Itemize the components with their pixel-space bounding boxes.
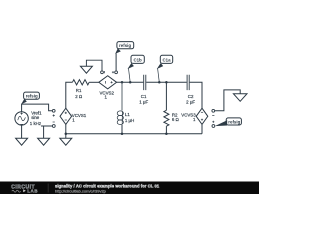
divider	[47, 184, 50, 193]
wire L1 drop	[121, 82, 123, 110]
svg-text:2 μF: 2 μF	[186, 99, 195, 104]
bottom rail wire	[66, 133, 202, 135]
wire C1a flag line	[158, 68, 160, 82]
VCVS2 plus mark	[111, 81, 113, 83]
wire VCVS2 + control up	[115, 53, 117, 71]
svg-text:refsig: refsig	[26, 94, 38, 99]
svg-text:C2: C2	[188, 94, 194, 99]
VCVS3 + control terminal	[212, 125, 215, 128]
capacitor C2	[187, 75, 189, 90]
voltage source Vref1	[15, 112, 28, 125]
node R2 top junction	[165, 81, 168, 84]
VCVS3 + control mark	[212, 121, 214, 123]
svg-text:C1b: C1b	[133, 58, 142, 63]
svg-text:refsig: refsig	[119, 43, 131, 48]
node L1 top junction	[121, 81, 124, 84]
wire Vref1 bottom stem	[21, 125, 23, 138]
Vref1 plus mark	[21, 113, 23, 115]
VCVS1 - control mark	[53, 121, 55, 123]
VCVS3 plus mark	[201, 119, 203, 121]
flag C1b	[127, 63, 133, 69]
resistor R2	[164, 110, 169, 126]
flag refsig (top)	[115, 48, 121, 53]
svg-text:1 μF: 1 μF	[139, 99, 148, 104]
svg-text:LAB: LAB	[27, 189, 38, 194]
ground top right	[233, 94, 247, 102]
svg-text:1 μH: 1 μH	[125, 118, 134, 123]
VCVS2 - control mark	[103, 71, 105, 73]
footer bar	[0, 182, 259, 195]
ground below VCVS1 - control	[38, 138, 50, 145]
flag C1a	[157, 63, 163, 69]
wire VCVS1 top stem	[66, 82, 73, 108]
node L1 bottom junction	[121, 132, 124, 135]
VCVS3 minus mark	[201, 111, 203, 113]
svg-text:1: 1	[72, 118, 75, 123]
wire VCVS2 right to C1	[117, 81, 144, 83]
svg-text:sine: sine	[31, 115, 40, 120]
svg-text:VCVS2: VCVS2	[99, 90, 114, 95]
svg-text:1: 1	[193, 117, 196, 122]
wire Vref1 top to VCVS1 + control	[22, 104, 53, 112]
resistor R1	[72, 80, 89, 85]
VCVS2 + control terminal	[115, 71, 118, 74]
logo wave	[12, 190, 21, 192]
svg-text:C1a: C1a	[162, 58, 171, 63]
VCVS2 - control terminal	[101, 71, 104, 74]
wire C1 right	[146, 81, 187, 83]
node R2 bottom junction	[165, 132, 168, 135]
svg-text:2 Ω: 2 Ω	[75, 94, 83, 99]
svg-text:http://circuitlab.com/c/r39v2p: http://circuitlab.com/c/r39v2p	[55, 189, 107, 194]
VCVS1 minus mark	[65, 119, 67, 121]
capacitor C1	[144, 75, 146, 90]
VCVS2 + control mark	[112, 71, 114, 73]
Vref1 sine wave	[18, 116, 26, 120]
svg-text:1 kHz: 1 kHz	[30, 121, 41, 126]
wire R2 drop	[165, 82, 167, 110]
wire L1 bottom stem	[121, 125, 123, 134]
VCVS1 plus mark	[65, 112, 67, 114]
ground under Vref1	[16, 138, 28, 145]
op VCVS2 diamond	[99, 76, 117, 89]
node C1a junction	[158, 81, 161, 84]
VCVS1 - control terminal	[52, 125, 55, 128]
VCVS1 + control mark	[53, 114, 55, 116]
svg-text:L1: L1	[125, 112, 130, 117]
wire VCVS3 bottom	[201, 124, 203, 133]
wire R1 right to VCVS2	[89, 81, 99, 83]
svg-text:6 Ω: 6 Ω	[172, 117, 180, 122]
op VCVS3 diamond	[196, 108, 208, 124]
VCVS3 - control terminal	[212, 109, 215, 112]
flag refsig (left)	[21, 99, 27, 105]
wire VCVS1 bottom	[65, 124, 67, 133]
op VCVS1 diamond	[60, 108, 72, 124]
wire C1b flag line	[129, 68, 131, 82]
wire R2 bottom stem	[165, 126, 167, 134]
node C1b junction	[129, 81, 132, 84]
VCVS1 + control terminal	[52, 109, 55, 112]
ground under VCVS1	[60, 134, 72, 146]
svg-text:refsig: refsig	[228, 119, 240, 124]
wire VCVS2 - control to ground	[86, 60, 102, 71]
flag refsig (right)	[215, 120, 227, 126]
Vref1 minus mark	[20, 123, 23, 125]
svg-text:R1: R1	[76, 88, 82, 93]
wire C2 right to VCVS3	[190, 82, 202, 108]
ground above left	[80, 66, 92, 73]
VCVS2 minus mark	[104, 81, 106, 84]
svg-text:C1: C1	[141, 94, 147, 99]
inductor L1	[117, 111, 123, 125]
node VCVS1 bottom junction	[65, 132, 68, 135]
VCVS3 - control mark	[212, 114, 214, 116]
wire VCVS1 - control to ground	[41, 126, 52, 138]
wire VCVS3 - control to ground	[215, 90, 241, 111]
